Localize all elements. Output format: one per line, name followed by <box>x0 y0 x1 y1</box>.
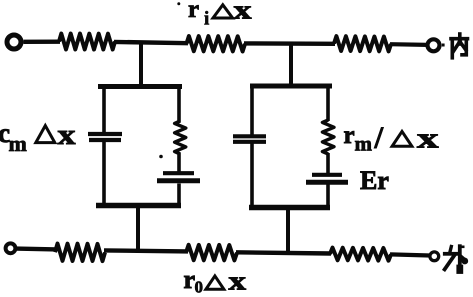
battery Er (left) short plate <box>163 171 194 175</box>
svg-text:x: x <box>417 124 439 155</box>
svg-text:m: m <box>355 132 373 156</box>
battery Er short plate <box>312 173 342 177</box>
resistor ri (top-left series) <box>59 34 115 50</box>
svg-text:Er: Er <box>360 166 389 195</box>
wire: left capacitor branch upper lead <box>102 85 106 134</box>
resistor rm (left membrane, vertical) <box>175 121 186 154</box>
svg-text:r: r <box>344 122 355 149</box>
wire: right section top bar <box>250 84 332 89</box>
wire: lead from battery Er to bottom bar <box>326 185 330 209</box>
wire: stub from left membrane section down to bottom rail node <box>136 207 140 252</box>
svg-text:m: m <box>9 131 27 156</box>
wire bottom rail: first resistor to resistor r0-dx (node at x=138) <box>104 250 188 251</box>
wire top rail: left terminal to first resistor <box>24 40 61 44</box>
label cm*dx : delta triangle <box>36 126 55 143</box>
wire: right section bottom bar <box>249 205 330 211</box>
wire: lead from right membrane resistor to battery Er <box>326 153 330 173</box>
terminal top-left (inner conductor) <box>7 35 21 49</box>
resistor r0*dx (bottom-middle series) <box>186 245 237 261</box>
wire bottom rail: middle resistor to right resistor (node at x=288) <box>236 252 331 253</box>
capacitor cm*dx top plate <box>88 132 122 136</box>
svg-text:x: x <box>234 0 252 24</box>
wire: left resistor branch upper lead <box>177 85 181 123</box>
ink speck right of top-right terminal <box>442 44 445 47</box>
svg-text:i: i <box>204 9 209 30</box>
battery Er long plate <box>306 180 348 185</box>
resistor (top-right series) <box>334 36 391 51</box>
svg-text:0: 0 <box>195 278 204 297</box>
battery Er (left) long plate <box>157 178 200 183</box>
capacitor cm*dx bottom plate <box>89 138 121 142</box>
svg-text:/: / <box>374 120 384 155</box>
svg-text:r: r <box>184 265 196 294</box>
wire: left capacitor branch lower lead <box>102 142 106 206</box>
label r0*dx : delta triangle <box>206 276 224 289</box>
ink speck inside left section <box>159 155 163 159</box>
label ri*dx : delta triangle <box>213 5 233 18</box>
svg-text:r: r <box>188 0 199 23</box>
resistor (bottom-right series) <box>330 248 391 261</box>
resistor (bottom-left series) <box>55 244 105 262</box>
label rm/dx : delta triangle <box>392 131 412 146</box>
label "nei" (inner) hand-drawn character <box>451 34 468 58</box>
wire: lead from left membrane resistor to battery <box>177 153 181 173</box>
wire: stub from top rail node down to right membrane section <box>289 44 293 87</box>
wire: left section top bar <box>98 84 182 89</box>
ink speck left of label ri*dx <box>177 2 180 5</box>
svg-text:x: x <box>229 267 247 296</box>
wire bottom rail: left terminal to first resistor <box>16 246 58 251</box>
capacitor (right membrane) top plate <box>233 134 266 138</box>
wire: lead from left battery to bottom bar <box>177 184 181 207</box>
resistor rm/dx (right membrane, vertical) <box>322 120 334 154</box>
wire: stub from right membrane section down to bottom rail node <box>286 209 290 254</box>
wire: right capacitor branch lower lead <box>250 144 254 209</box>
wire top rail: first resistor to resistor ri-dx (node at x=141) <box>114 42 188 43</box>
wire: left section bottom bar <box>96 203 181 209</box>
terminal top-right (inner) <box>428 39 440 51</box>
wire bottom rail: right resistor to right terminal <box>390 254 430 255</box>
wire top rail: right resistor to right terminal <box>390 42 427 47</box>
svg-text:x: x <box>58 120 76 151</box>
wire top rail: middle resistor to right resistor (node at x=291) <box>244 41 335 46</box>
terminal bottom-left (outer conductor) <box>6 243 16 253</box>
wire: right capacitor branch upper lead <box>250 84 254 136</box>
wire: right resistor branch upper lead <box>326 84 330 121</box>
resistor ri*dx (top-middle series) <box>187 36 246 52</box>
label "wai" (outer) hand-drawn character <box>445 246 469 270</box>
wire: stub from top rail node down to left membrane section <box>139 43 143 89</box>
terminal bottom-right (outer) <box>430 252 439 261</box>
capacitor (right membrane) bottom plate <box>233 140 266 144</box>
